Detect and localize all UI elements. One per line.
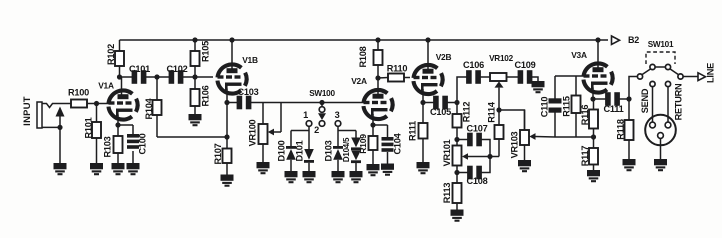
wire V2A plate <box>377 78 379 95</box>
svg-text:LINE: LINE <box>706 63 716 83</box>
node V3A cathode <box>590 96 595 101</box>
diode pair D104/5 <box>342 131 361 172</box>
switch SW101 return contact <box>665 81 670 86</box>
svg-text:R103: R103 <box>103 136 113 157</box>
svg-text:R104: R104 <box>144 97 154 119</box>
wire contact3 down <box>338 126 356 130</box>
node R100-R101 <box>94 101 99 106</box>
wire R104 to R107 <box>157 136 227 138</box>
svg-text:INPUT: INPUT <box>21 96 32 126</box>
wire V1B cathode <box>226 89 228 103</box>
svg-text:V2A: V2A <box>351 76 367 86</box>
wire VR101 bottom <box>456 166 458 173</box>
svg-text:C109: C109 <box>515 60 536 70</box>
resistor R116 <box>580 99 598 137</box>
switch SW101 right contact <box>665 64 678 74</box>
svg-text:V2B: V2B <box>436 52 452 62</box>
switch SW100 contact 1 <box>303 110 312 126</box>
wire grid line V1B <box>195 76 213 78</box>
ground R107 <box>221 175 234 186</box>
triode V3A <box>571 50 612 93</box>
resistor R115 <box>562 76 581 137</box>
svg-text:C110: C110 <box>540 97 550 118</box>
node R104 top <box>154 74 159 79</box>
triode V2A <box>351 76 392 119</box>
switch SW100 contact 3 <box>335 110 341 126</box>
svg-text:R110: R110 <box>387 64 408 74</box>
resistor R118 <box>616 99 634 159</box>
wire V2A cathode <box>372 114 374 125</box>
node V2A plate <box>375 75 380 80</box>
wire B2 supply rail <box>120 39 609 41</box>
wire SW100 to V2A grid <box>322 102 364 104</box>
switch SW101 right pole <box>678 74 683 79</box>
ground R118 <box>623 159 636 170</box>
wire return down <box>667 87 669 123</box>
svg-text:R115: R115 <box>562 96 572 117</box>
wire VR102-C109 <box>507 76 519 78</box>
label SEND <box>640 88 650 113</box>
wire VR100 to SW100 <box>281 102 322 104</box>
svg-text:R101: R101 <box>84 117 94 138</box>
wire VR103 bottom <box>524 145 526 160</box>
svg-text:R100: R100 <box>68 88 89 98</box>
ground connector <box>654 159 667 170</box>
switch SW100 pole <box>309 89 335 120</box>
ground VR103 <box>518 160 531 171</box>
svg-text:C105: C105 <box>430 107 451 117</box>
svg-text:3: 3 <box>335 110 340 120</box>
svg-text:C102: C102 <box>167 64 188 74</box>
svg-text:R109: R109 <box>358 134 368 154</box>
potentiometer VR100 <box>248 103 268 163</box>
wire C107 right <box>482 140 491 157</box>
triode V2B <box>413 52 451 94</box>
svg-text:1: 1 <box>303 110 308 120</box>
wire C106-VR102 <box>481 76 491 78</box>
svg-text:R118: R118 <box>616 119 626 140</box>
svg-text:RETURN: RETURN <box>674 83 684 120</box>
node V2B cathode <box>420 100 425 105</box>
capacitor C109 <box>515 60 536 84</box>
resistor R103 <box>103 125 123 163</box>
wiper VR103 <box>529 133 555 140</box>
ground C100 <box>127 163 140 174</box>
svg-text:R111: R111 <box>408 121 418 141</box>
svg-text:R105: R105 <box>201 41 211 62</box>
node rail-V1B-plate <box>229 37 234 42</box>
svg-text:R107: R107 <box>213 143 223 164</box>
ground D103 <box>332 171 345 182</box>
capacitor C111 <box>604 92 624 114</box>
wire V1B plate <box>231 40 233 70</box>
resistor R113 <box>442 173 462 210</box>
node R105-R106-grid <box>192 74 197 79</box>
wiper VR102 <box>495 81 504 110</box>
svg-text:2: 2 <box>314 125 319 135</box>
svg-text:V1A: V1A <box>98 81 114 91</box>
node C111-R118 <box>626 96 631 101</box>
svg-text:VR102: VR102 <box>489 54 513 63</box>
wire C102-R105R106 <box>183 76 195 78</box>
ground C104 <box>381 164 394 175</box>
svg-text:R108: R108 <box>358 46 368 67</box>
input jack J1 <box>37 102 71 163</box>
ground R109 <box>367 164 380 175</box>
label INPUT <box>21 96 32 126</box>
resistor R117 <box>580 137 598 170</box>
svg-text:R114: R114 <box>487 101 497 123</box>
node input sleeve junction <box>57 125 62 130</box>
wire tone line <box>555 136 594 138</box>
resistor R110 <box>378 64 410 82</box>
resistor R106 <box>191 77 211 114</box>
svg-text:VR100: VR100 <box>248 119 258 146</box>
node VR101-C108-R113 <box>454 170 459 175</box>
switch SW101 send contact <box>650 81 655 86</box>
ground R111 <box>417 162 430 173</box>
ground D101 <box>303 171 316 182</box>
svg-text:C101: C101 <box>129 64 150 74</box>
svg-text:SEND: SEND <box>640 88 650 113</box>
wire cathode to C103 <box>227 102 237 104</box>
wire V2B plate <box>427 40 429 70</box>
svg-text:C107: C107 <box>467 124 488 134</box>
svg-text:VR103: VR103 <box>510 131 520 158</box>
wire cathode split <box>118 124 133 126</box>
switch SW101 left contact <box>650 64 655 69</box>
triode V1A <box>98 81 137 120</box>
wire send down <box>652 87 654 123</box>
svg-text:SW100: SW100 <box>309 89 335 98</box>
capacitor C105 <box>430 96 451 117</box>
resistor R111 <box>408 103 428 163</box>
svg-text:R112: R112 <box>462 102 472 123</box>
switch SW101 left pole <box>637 69 650 79</box>
svg-text:R116: R116 <box>580 105 590 126</box>
label RETURN <box>674 83 684 120</box>
wiper VR100 <box>268 103 281 136</box>
node rail-V2B-plate <box>425 37 430 42</box>
triode V1B <box>217 55 257 94</box>
wire C101-C102 <box>146 76 169 78</box>
node rail-R105 <box>192 37 197 42</box>
node R116-R117 <box>591 134 596 139</box>
capacitor C103 <box>237 87 259 109</box>
svg-text:V3A: V3A <box>571 50 587 60</box>
ground input jack <box>54 163 67 174</box>
wire cathode split V2A <box>373 124 388 126</box>
resistor R102 <box>106 40 124 77</box>
node R104-R107 <box>224 134 229 139</box>
wire C105 right <box>448 102 458 104</box>
wire cathode to C105 <box>423 102 434 104</box>
ground R101 <box>90 163 103 174</box>
capacitor C107 <box>457 124 488 147</box>
wire up to tone <box>457 77 467 103</box>
svg-text:V1B: V1B <box>242 55 258 65</box>
switch SW101 dashed box <box>646 40 675 64</box>
svg-text:R102: R102 <box>106 44 116 65</box>
node rail-V3A-plate <box>595 37 600 42</box>
wire V2B cathode <box>422 89 424 103</box>
wire C103 to VR100 <box>251 102 281 104</box>
svg-text:C104: C104 <box>393 132 403 154</box>
wire V3A cathode <box>592 88 594 100</box>
potentiometer VR101 <box>442 139 462 166</box>
resistor R100 <box>68 88 109 108</box>
wire cathode to C111 <box>593 98 606 100</box>
svg-text:C103: C103 <box>238 87 259 97</box>
wiper VR101 <box>462 153 490 160</box>
capacitor C106 <box>463 60 484 84</box>
capacitor C110 <box>540 76 562 137</box>
node rail-R108 <box>375 37 380 42</box>
ground D104/5 <box>350 171 363 182</box>
svg-text:C106: C106 <box>463 60 484 70</box>
switch SW100 contact 2 <box>314 121 325 135</box>
ground R113 <box>451 210 464 221</box>
wire C111 right <box>620 98 630 100</box>
wire V1A cathode down <box>117 115 119 126</box>
node V1B cathode <box>224 100 229 105</box>
capacitor C102 <box>167 64 188 84</box>
wire to VR103 <box>499 110 525 130</box>
capacitor C108 <box>457 166 488 186</box>
svg-text:C111: C111 <box>604 104 624 114</box>
svg-text:R117: R117 <box>580 146 590 167</box>
diode D101 <box>295 131 315 172</box>
capacitor C104 <box>382 125 403 164</box>
svg-text:B2: B2 <box>628 35 639 45</box>
resistor R109 <box>358 125 378 164</box>
wire V3A plate <box>597 40 599 69</box>
resistor R104 <box>144 77 162 137</box>
resistor R101 <box>84 104 102 164</box>
node V2A cathode <box>370 122 375 127</box>
svg-text:C100: C100 <box>138 133 148 154</box>
wire to LINE <box>683 76 698 78</box>
svg-text:D100: D100 <box>277 140 287 161</box>
ground R117 <box>587 170 600 181</box>
node R112-C107-VR101 <box>454 137 459 142</box>
ground D100 <box>285 171 298 182</box>
connector send/return socket <box>645 115 676 159</box>
ground R103 <box>112 163 125 174</box>
node C105-R112 <box>454 100 459 105</box>
power B2 arrow <box>612 35 640 45</box>
output LINE arrow <box>698 63 716 83</box>
resistor R108 <box>358 40 383 78</box>
wire V1B cathode down <box>226 103 228 149</box>
resistor R107 <box>213 143 232 174</box>
wire V1A plate up <box>121 77 123 96</box>
svg-text:D101: D101 <box>295 140 305 161</box>
potentiometer VR103 <box>510 110 530 158</box>
svg-text:D103: D103 <box>324 140 334 161</box>
ground R106 <box>189 114 202 125</box>
capacitor C100 <box>127 125 148 163</box>
svg-text:R113: R113 <box>442 183 452 204</box>
wire SW101 bridge <box>655 66 666 68</box>
resistor R114 <box>487 101 504 156</box>
svg-text:VR101: VR101 <box>442 139 452 166</box>
diode D100 <box>277 131 297 172</box>
node V1A plate <box>117 74 122 79</box>
wire C108 right <box>482 157 491 173</box>
wire C109 to gnd <box>532 77 538 81</box>
ground C109 <box>532 81 545 92</box>
diode D103 <box>324 131 344 172</box>
wire contact1 down <box>291 126 309 130</box>
svg-text:R106: R106 <box>201 85 211 106</box>
capacitor C101 <box>129 64 150 84</box>
wire to SW101 <box>629 77 638 100</box>
svg-text:SW101: SW101 <box>648 40 674 49</box>
resistor R105 <box>191 40 211 77</box>
wire plate node line <box>120 76 133 78</box>
svg-text:C108: C108 <box>467 176 488 186</box>
ground VR100 <box>257 162 270 173</box>
node VR102 wiper-R114 <box>496 107 501 112</box>
wire grid line V3A <box>555 75 584 77</box>
node tone mid <box>487 154 492 159</box>
potentiometer VR102 <box>489 54 513 81</box>
node V1A cathode <box>115 122 120 127</box>
resistor R112 <box>453 102 472 140</box>
svg-text:D104/5: D104/5 <box>342 137 351 162</box>
